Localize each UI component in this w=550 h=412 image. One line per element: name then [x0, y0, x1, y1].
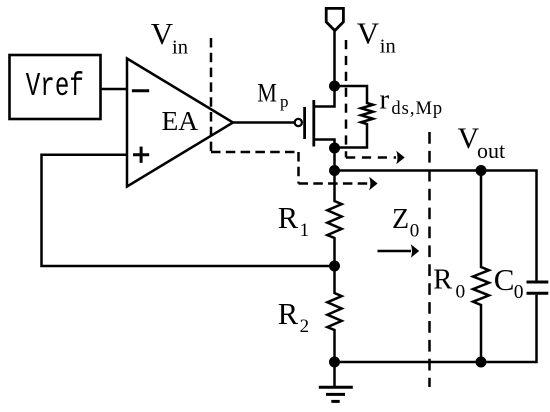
ground symbol [319, 387, 353, 401]
transistor Mp drain lead [314, 140, 335, 149]
resistor R1 [327, 171, 341, 267]
arrowhead of lower dashed arrow [369, 177, 377, 191]
transistor Mp channel bar [312, 100, 315, 147]
svg-text:1: 1 [300, 220, 310, 241]
svg-text:R: R [433, 264, 452, 295]
resistor R0 [473, 171, 489, 363]
svg-text:0: 0 [410, 221, 420, 242]
svg-text:p: p [280, 92, 289, 111]
svg-text:R: R [278, 297, 299, 331]
EA inverting input minus sign [132, 89, 149, 92]
svg-text:2: 2 [300, 316, 310, 337]
transistor Mp gate bubble [295, 119, 302, 126]
node ground junction [329, 357, 340, 368]
dashed path through Mp [346, 40, 396, 158]
node R0 top junction [476, 165, 487, 176]
svg-text:ds,Mp: ds,Mp [391, 99, 443, 119]
op-amp EA [127, 59, 233, 187]
resistor rds,Mp [335, 86, 374, 148]
ground stem [333, 362, 336, 387]
wire EA output to gate [233, 121, 295, 124]
transistor Mp source lead [314, 86, 335, 107]
feedback wire to EA plus input [42, 155, 335, 266]
svg-text:in: in [380, 36, 396, 58]
wire capacitor bottom to ground rail [335, 295, 537, 362]
svg-text:M: M [257, 79, 277, 108]
svg-text:R: R [278, 201, 299, 235]
svg-text:out: out [477, 138, 505, 163]
EA non-inverting input plus sign [133, 147, 149, 163]
node feedback divider junction [329, 261, 340, 272]
svg-text:Z: Z [392, 204, 409, 235]
svg-text:V: V [357, 16, 380, 51]
dashed feedback path left [211, 38, 369, 184]
svg-text:r: r [380, 83, 390, 115]
node R0 bottom junction [476, 357, 487, 368]
wire Vout horizontal [335, 171, 537, 281]
svg-text:0: 0 [456, 282, 466, 303]
wire Vref to EA inverting input [101, 88, 128, 91]
supply symbol Vin [326, 8, 343, 30]
node Vin rail junction [329, 81, 340, 92]
svg-text:0: 0 [514, 282, 524, 303]
node Vout junction [329, 165, 340, 176]
Z0 arrow [378, 250, 412, 253]
capacitor C0 plates [527, 282, 549, 293]
Vref box [10, 55, 101, 119]
svg-text:V: V [151, 16, 174, 51]
svg-text:in: in [172, 36, 188, 58]
dashed boundary line Z0 [428, 132, 431, 387]
node Mp drain junction [329, 143, 340, 154]
svg-text:C: C [494, 262, 515, 297]
wire supply to source node [333, 30, 336, 86]
arrowhead of upper dashed arrow [396, 151, 404, 165]
wire drain node to Vout node [333, 148, 336, 171]
svg-text:EA: EA [162, 105, 199, 136]
resistor R2 [327, 266, 341, 362]
transistor Mp gate bar [303, 107, 306, 139]
svg-text:Vref: Vref [26, 68, 84, 106]
